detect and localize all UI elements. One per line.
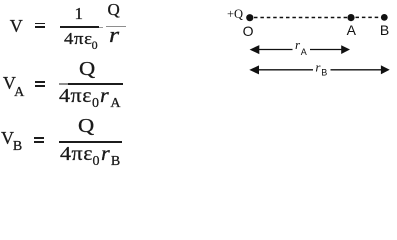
numerator Q (row2) — [79, 59, 95, 79]
arrow r_A line left segment — [257, 49, 293, 51]
subscript B of r_B (row3) — [111, 155, 120, 169]
subscript 0 (row2) — [92, 97, 99, 111]
point B dot — [381, 14, 388, 21]
fraction bar Q/r — [106, 26, 126, 28]
dashed line A to B — [356, 16, 381, 18]
equals sign 2 — [35, 81, 45, 82]
subscript 0 (row3) — [93, 155, 100, 169]
subscript A of r_A (row2) — [110, 97, 120, 111]
subscript A of V_A — [14, 86, 24, 100]
arrow r_B line right segment — [331, 69, 383, 71]
point O dot — [246, 14, 253, 21]
subscript B of V_B — [13, 140, 22, 154]
fraction bar 1 faint extension — [99, 27, 103, 28]
fraction bar 2 — [59, 83, 122, 85]
arrow r_B left head — [249, 65, 259, 74]
svg-text:O: O — [243, 23, 254, 39]
fraction bar 3 — [59, 141, 122, 143]
denominator 4 pi eps0 (row3) — [60, 144, 93, 164]
dashed line O to A — [254, 17, 347, 19]
diagram: charge +Q at O with points A and B — [220, 0, 397, 90]
equals sign 1 — [35, 23, 45, 24]
numerator Q (row1) — [108, 1, 120, 18]
svg-text:A: A — [301, 47, 307, 57]
denominator r (row1) — [109, 24, 119, 46]
point A dot — [347, 14, 354, 21]
arrow r_A line right segment — [310, 49, 343, 51]
arrow r_B line left segment — [257, 69, 313, 71]
subscript 0 of eps0 (row1) — [92, 39, 98, 51]
denominator 4 pi eps0 — [64, 30, 93, 47]
fraction bar 2 faint left end — [59, 83, 68, 85]
denominator 4 pi eps0 (row2) — [59, 86, 92, 106]
symbol V — [10, 17, 23, 35]
numerator Q (row3) — [78, 116, 94, 136]
svg-text:B: B — [380, 22, 389, 38]
denominator r (row3) — [101, 144, 110, 164]
svg-text:B: B — [321, 68, 327, 78]
denominator r (row2) — [100, 86, 109, 106]
arrow r_B right head — [381, 65, 390, 74]
equals sign 3 — [34, 137, 44, 138]
arrow r_A left head — [250, 45, 260, 54]
svg-text:+Q: +Q — [227, 7, 243, 21]
numerator 1 — [75, 5, 84, 22]
symbol V (row3) — [1, 129, 14, 147]
fraction bar 1 — [60, 26, 99, 28]
arrow r_A right head — [341, 45, 350, 54]
svg-text:A: A — [347, 22, 357, 38]
symbol V (row2) — [3, 74, 16, 92]
